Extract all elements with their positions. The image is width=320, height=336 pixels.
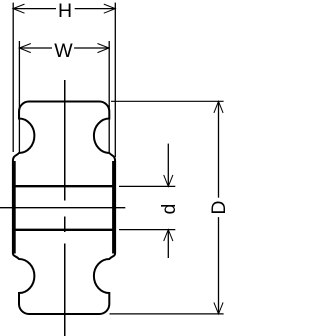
- d extension line bottom: [119, 229, 175, 231]
- dimension H line: [13, 8, 115, 10]
- D extension line top: [111, 100, 224, 102]
- dimension d line bottom segment: [167, 230, 169, 258]
- wheel outline: [13, 102, 115, 315]
- horizontal centerline: [0, 207, 125, 209]
- hub bottom line: [12, 229, 116, 231]
- dimension D line lower segment: [218, 217, 220, 314]
- H extension line left: [12, 3, 14, 152]
- dimension W right arrow: [98, 44, 110, 53]
- W extension line left: [18, 41, 20, 152]
- dimension d top arrow: [164, 175, 173, 187]
- hub top line: [12, 185, 116, 187]
- svg-text:d: d: [158, 204, 180, 215]
- dimension d line top segment: [167, 144, 169, 187]
- dimension D line upper segment: [218, 101, 220, 197]
- svg-text:H: H: [58, 0, 72, 22]
- d extension line top: [119, 185, 175, 187]
- D extension line bottom: [110, 313, 224, 315]
- W extension line right: [108, 41, 110, 152]
- dimension W line: [19, 47, 109, 49]
- hub left face thick line: [12, 161, 16, 254]
- dimension H left arrow: [13, 4, 25, 13]
- hub right face thick line: [112, 161, 116, 254]
- dimension D top arrow: [214, 101, 223, 113]
- svg-text:W: W: [54, 40, 73, 62]
- dimension H right arrow: [104, 4, 116, 13]
- dimension D bottom arrow: [214, 302, 223, 314]
- H extension line right: [114, 3, 116, 157]
- dimension d bottom arrow: [164, 230, 173, 242]
- vertical centerline: [64, 80, 66, 336]
- svg-text:D: D: [208, 201, 230, 215]
- dimension W left arrow: [19, 44, 31, 53]
